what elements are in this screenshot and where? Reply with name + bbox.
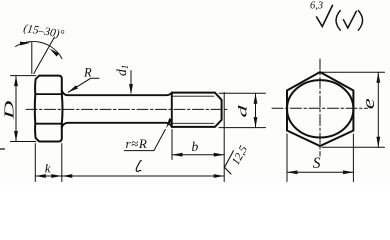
svg-text:d1: d1 bbox=[114, 65, 130, 76]
hexagon head outline bbox=[287, 72, 353, 146]
svg-text:d: d bbox=[236, 105, 250, 117]
d dimension line bbox=[255, 93, 257, 127]
open paren bbox=[336, 11, 340, 31]
horizontal centerline bbox=[272, 107, 368, 109]
head face divider bottom bbox=[35, 123, 61, 125]
e dimension line bbox=[377, 72, 379, 147]
vertical centerline bbox=[319, 59, 321, 156]
k / l shared extension line bbox=[61, 144, 63, 182]
e extension lines bbox=[322, 72, 385, 147]
thread minor diameter thin line top bbox=[172, 95, 214, 97]
roughness mark 12,5 bbox=[225, 151, 234, 174]
r~R leader bbox=[124, 130, 165, 151]
svg-text:(15–30)°: (15–30)° bbox=[23, 23, 66, 41]
thread minor diameter thin line bottom bbox=[172, 122, 214, 124]
centerline bolt axis bbox=[26, 108, 229, 110]
svg-text:S: S bbox=[313, 155, 321, 172]
S extension lines bbox=[287, 134, 353, 182]
svg-text:e: e bbox=[359, 98, 378, 109]
chamfer angle arc bbox=[16, 41, 62, 58]
d1 leader arrow bbox=[130, 71, 132, 93]
chamfer angle vertical line bbox=[31, 43, 33, 74]
svg-text:k: k bbox=[45, 161, 51, 176]
svg-text:6,3: 6,3 bbox=[310, 1, 323, 12]
k extension line left bbox=[34, 144, 36, 182]
l dimension line bbox=[62, 175, 224, 177]
shank top edge bbox=[68, 93, 172, 96]
b dimension line bbox=[172, 154, 224, 156]
chamfer angle slant line bbox=[34, 37, 55, 74]
D dimension extension lines bbox=[11, 76, 36, 142]
chamfer circle bbox=[287, 80, 353, 137]
fillet under head bottom bbox=[62, 123, 68, 128]
D dimension line bbox=[15, 76, 17, 142]
d extension lines bbox=[219, 93, 266, 127]
thread outline bbox=[172, 93, 222, 127]
thread step edge bbox=[171, 93, 173, 127]
svg-text:D: D bbox=[2, 100, 17, 120]
checkmark main bbox=[317, 5, 333, 26]
k dimension line bbox=[35, 175, 62, 177]
b extension line right (shared with l and roughness) bbox=[223, 93, 225, 182]
fillet under head top (R) bbox=[62, 91, 68, 96]
label l bbox=[136, 161, 141, 172]
shank bottom edge bbox=[68, 123, 172, 127]
b extension line left bbox=[171, 130, 173, 160]
svg-text:R: R bbox=[83, 66, 92, 80]
svg-text:b: b bbox=[192, 139, 199, 154]
svg-text:12,5: 12,5 bbox=[230, 144, 250, 168]
head face divider top bbox=[35, 93, 61, 95]
S dimension line bbox=[287, 171, 353, 173]
R leader bbox=[68, 78, 99, 92]
bolt head outline bbox=[35, 76, 63, 142]
scan artifact tick left edge bbox=[0, 148, 5, 150]
checkmark small bbox=[344, 11, 357, 28]
svg-text:r≈R: r≈R bbox=[126, 136, 148, 151]
close paren bbox=[358, 11, 362, 31]
